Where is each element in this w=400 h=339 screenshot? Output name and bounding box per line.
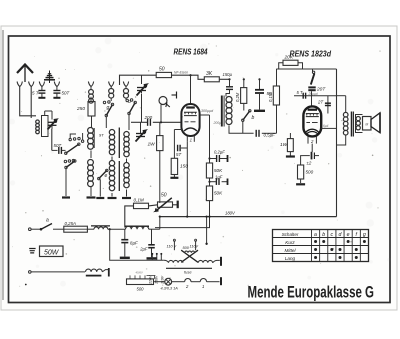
svg-text:b: b xyxy=(252,115,255,121)
svg-text:8µF: 8µF xyxy=(130,241,138,246)
svg-text:Mende Europaklasse G: Mende Europaklasse G xyxy=(248,283,375,302)
svg-text:180V: 180V xyxy=(225,211,236,216)
svg-text:150µ: 150µ xyxy=(223,72,233,77)
svg-text:50: 50 xyxy=(161,193,167,199)
svg-text:0,2µF: 0,2µF xyxy=(214,150,225,155)
svg-text:110V: 110V xyxy=(190,245,199,249)
svg-text:200: 200 xyxy=(144,115,153,120)
svg-text:Kurz: Kurz xyxy=(285,240,295,245)
svg-text:Schalter: Schalter xyxy=(282,232,299,237)
svg-text:1W: 1W xyxy=(148,142,156,148)
svg-text:0,1M: 0,1M xyxy=(268,92,273,102)
svg-text:e: e xyxy=(105,173,108,179)
svg-text:0,1M: 0,1M xyxy=(134,198,144,203)
svg-text:RENS 1684: RENS 1684 xyxy=(174,48,208,57)
svg-text:0,2M: 0,2M xyxy=(235,92,240,102)
svg-text:±2: ±2 xyxy=(307,161,312,166)
svg-text:6µ4: 6µ4 xyxy=(323,124,329,128)
svg-text:RENS 1823d: RENS 1823d xyxy=(290,49,332,58)
svg-text:g: g xyxy=(363,232,366,238)
svg-text:Mittel: Mittel xyxy=(285,248,297,253)
svg-text:150: 150 xyxy=(180,164,188,170)
svg-text:50W: 50W xyxy=(44,249,60,256)
svg-text:5 T: 5 T xyxy=(297,90,303,95)
svg-text:1µF: 1µF xyxy=(215,175,223,180)
svg-text:20K: 20K xyxy=(284,55,294,61)
svg-text:2µF: 2µF xyxy=(139,247,148,252)
svg-text:2T: 2T xyxy=(317,100,323,105)
svg-text:a: a xyxy=(46,218,49,224)
svg-text:3K: 3K xyxy=(206,71,213,77)
svg-text:2: 2 xyxy=(310,139,314,144)
svg-text:300µµd: 300µµd xyxy=(201,109,214,113)
svg-text:50T: 50T xyxy=(62,91,71,96)
svg-text:110V: 110V xyxy=(160,275,164,284)
svg-text:200µ: 200µ xyxy=(213,121,222,125)
svg-text:fuse: fuse xyxy=(184,270,192,275)
svg-text:0,25A: 0,25A xyxy=(65,221,77,226)
svg-text:50: 50 xyxy=(159,67,165,73)
svg-text:a: a xyxy=(314,232,317,238)
svg-text:150V: 150V xyxy=(155,275,159,284)
svg-text:20T: 20T xyxy=(316,87,326,93)
svg-text:4,3/0,3 1A: 4,3/0,3 1A xyxy=(161,287,179,291)
svg-text:500: 500 xyxy=(137,286,145,291)
svg-text:1: 1 xyxy=(202,284,204,289)
svg-text:Lang: Lang xyxy=(285,256,296,261)
svg-text:50K: 50K xyxy=(214,168,223,173)
svg-text:500: 500 xyxy=(306,170,314,175)
svg-text:9T: 9T xyxy=(99,133,104,138)
svg-text:220V: 220V xyxy=(149,275,153,285)
svg-text:b: b xyxy=(322,232,325,238)
svg-text:e: e xyxy=(347,232,350,238)
svg-text:110 V: 110 V xyxy=(167,245,177,249)
svg-text:50K: 50K xyxy=(214,191,223,196)
svg-text:1W: 1W xyxy=(280,142,288,148)
svg-text:M: M xyxy=(365,123,368,127)
svg-text:NF-Eisen: NF-Eisen xyxy=(174,71,188,75)
svg-text:250: 250 xyxy=(76,106,85,112)
svg-text:45/6V: 45/6V xyxy=(136,271,144,275)
svg-text:c: c xyxy=(330,232,333,238)
